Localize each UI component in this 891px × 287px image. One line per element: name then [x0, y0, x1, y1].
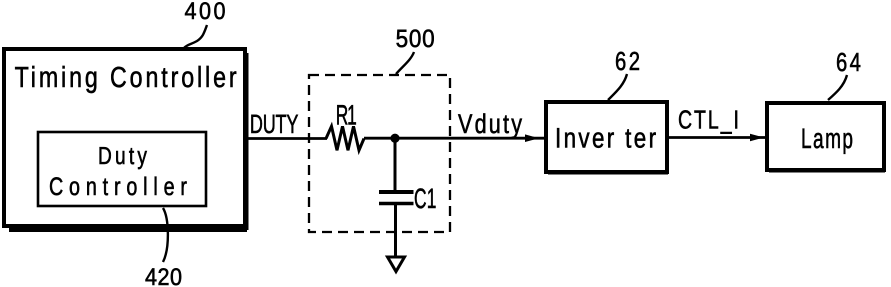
svg-text:400: 400 [185, 0, 226, 25]
label C1 [414, 183, 436, 214]
svg-text:CTL_I: CTL_I [678, 105, 739, 135]
svg-text:Controller: Controller [49, 173, 187, 201]
net label DUTY [250, 109, 299, 139]
label 400 [185, 0, 226, 25]
svg-text:C1: C1 [414, 183, 436, 214]
label R1 [336, 100, 357, 131]
wire resistor to inverter (net Vduty) [364, 137, 545, 140]
svg-text:420: 420 [145, 264, 182, 287]
ground symbol [388, 257, 405, 272]
label 62 [615, 46, 640, 76]
resistor R1 [326, 126, 364, 150]
capacitor C1 [379, 138, 414, 257]
net label Vduty [458, 109, 522, 139]
leader line for 420 [163, 208, 168, 262]
block Lamp (64) [767, 103, 885, 171]
leader line for 64 [828, 75, 847, 100]
net label CTL_I [678, 105, 739, 135]
svg-text:Lamp: Lamp [801, 123, 853, 154]
wire DUTY (timing controller output to resistor) [246, 137, 327, 140]
svg-text:DUTY: DUTY [250, 109, 299, 139]
svg-text:Duty: Duty [98, 143, 148, 170]
svg-text:R1: R1 [336, 100, 357, 131]
arrowhead into lamp [750, 134, 764, 142]
block Duty Controller (420) [38, 132, 206, 206]
junction node [390, 134, 399, 143]
block Inverter (62) [546, 102, 668, 173]
label 500 [396, 25, 435, 53]
label 64 [836, 47, 861, 77]
leader line for 500 [396, 52, 414, 74]
svg-text:Vduty: Vduty [458, 109, 522, 139]
leader line for 62 [608, 74, 627, 100]
wire CTL_I (inverter to lamp) [667, 136, 766, 139]
label 420 [145, 264, 182, 287]
arrowhead into inverter [525, 134, 539, 142]
block Timing Controller (400) [4, 49, 247, 230]
svg-text:500: 500 [396, 25, 435, 53]
leader line for 400 [184, 25, 207, 48]
dashed box RC filter (500) [309, 75, 450, 232]
